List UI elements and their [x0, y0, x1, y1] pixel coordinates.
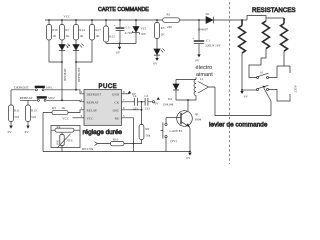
svg-text:CANCEL: CANCEL — [170, 129, 183, 133]
zener diode VZ1 — [133, 20, 147, 44]
thermistor NTC — [61, 132, 63, 151]
svg-text:SW2: SW2 — [48, 96, 55, 100]
svg-text:Q1: Q1 — [195, 112, 199, 116]
svg-text:D1: D1 — [206, 12, 210, 16]
capacitor C1 (electrolytic) — [192, 20, 221, 63]
svg-text:R1: R1 — [167, 12, 171, 16]
svg-text:3904: 3904 — [195, 117, 202, 121]
resistor R4 — [51, 129, 80, 131]
svg-text:C2: C2 — [144, 94, 148, 98]
svg-text:R17: R17 — [95, 28, 101, 32]
svg-text:DEFROST: DEFROST — [77, 67, 81, 82]
resistor R12 — [104, 20, 116, 44]
svg-text:1N4148: 1N4148 — [163, 103, 174, 107]
IC U1 PUCE — [84, 84, 122, 125]
svg-text:RE: RE — [115, 116, 119, 120]
wire pin6 OSC — [122, 102, 142, 125]
svg-text:R10: R10 — [113, 138, 119, 142]
switch S1 — [257, 70, 269, 78]
heater resistor RC — [269, 18, 290, 78]
svg-text:CARTE COMMANDE: CARTE COMMANDE — [98, 7, 149, 13]
svg-text:levier de commande: levier de commande — [209, 122, 268, 129]
diode D1 — [198, 12, 214, 32]
sensor box NTC — [51, 125, 80, 152]
svg-text:REPEAT: REPEAT — [87, 100, 99, 104]
svg-text:R13: R13 — [31, 109, 37, 113]
svg-text:+: + — [114, 24, 116, 28]
LED D2 (REHEAT indicator) — [59, 40, 70, 100]
svg-text:OSC: OSC — [113, 108, 120, 112]
svg-text:R9: R9 — [145, 127, 149, 131]
pushbutton SW1 — [35, 86, 53, 91]
svg-text:223: 223 — [145, 107, 150, 111]
svg-text:0V: 0V — [195, 59, 200, 63]
svg-text:réglage durée: réglage durée — [83, 129, 123, 136]
svg-text:RELAY: RELAY — [87, 108, 98, 112]
resistor R1 — [163, 12, 180, 28]
svg-text:2K: 2K — [62, 106, 67, 110]
svg-text:56k: 56k — [145, 134, 150, 138]
svg-text:C5: C5 — [126, 26, 130, 30]
6V flag heater — [240, 89, 248, 98]
capacitor C4 — [122, 94, 146, 111]
net label VCC (pin4) — [62, 116, 84, 120]
svg-text:VZ1: VZ1 — [140, 26, 146, 30]
inductor L1 coil — [188, 77, 204, 100]
svg-text:10V: 10V — [140, 32, 146, 36]
transistor Q1 — [166, 100, 202, 152]
svg-text:0V: 0V — [155, 102, 160, 106]
svg-text:240: 240 — [167, 25, 172, 29]
heater resistor RA — [239, 20, 246, 90]
LED D3 (DEFROST indicator) — [73, 40, 84, 90]
svg-text:L1: L1 — [200, 77, 204, 81]
wire VCC rail — [45, 16, 284, 22]
svg-text:230V: 230V — [294, 85, 298, 93]
svg-text:R8 270k: R8 270k — [82, 147, 94, 151]
svg-text:1K: 1K — [79, 34, 84, 38]
svg-text:D4: D4 — [168, 97, 172, 101]
0V flag near D4 — [155, 97, 160, 106]
svg-text:6V: 6V — [25, 130, 30, 134]
svg-text:VCC: VCC — [62, 116, 70, 120]
svg-text:10K: 10K — [56, 139, 60, 145]
svg-text:R3: R3 — [52, 106, 56, 110]
resistor R13 — [25, 105, 37, 134]
pushbutton CANCEL — [161, 118, 183, 152]
svg-text:510: 510 — [31, 115, 36, 119]
svg-text:NTC: NTC — [67, 139, 74, 143]
resistor R11 — [8, 105, 20, 134]
resistor R10 — [95, 138, 134, 146]
resistor R16 — [47, 20, 62, 62]
svg-text:6V: 6V — [244, 94, 249, 98]
svg-text:CK: CK — [114, 100, 119, 104]
svg-text:PUCE: PUCE — [99, 84, 118, 90]
node dot REHEAT column — [61, 99, 63, 101]
wire bottom bus — [43, 113, 190, 152]
svg-text:VCC: VCC — [64, 15, 72, 19]
node dots on VCC rail — [48, 19, 243, 21]
svg-text:0V: 0V — [186, 156, 191, 160]
0V flag emitter — [186, 151, 191, 160]
svg-text:R3: R3 — [161, 26, 165, 30]
svg-text:RESISTANCES: RESISTANCES — [252, 7, 296, 14]
svg-text:GND: GND — [112, 92, 120, 96]
svg-text:510: 510 — [14, 115, 19, 119]
svg-text:SW1: SW1 — [46, 86, 53, 90]
pushbutton SW2 — [37, 96, 55, 101]
svg-text:REHEAT: REHEAT — [20, 96, 33, 100]
svg-text:R11: R11 — [14, 109, 20, 113]
node dot collector — [187, 99, 189, 101]
node dot DEFROST column — [75, 89, 77, 91]
svg-text:électro: électro — [196, 65, 213, 71]
node dot C4/C2 — [141, 101, 143, 103]
svg-text:0V: 0V — [153, 62, 158, 66]
pin 8 6V flag — [122, 91, 137, 96]
svg-text:1K: 1K — [161, 33, 166, 37]
svg-text:0V: 0V — [116, 50, 121, 54]
svg-text:+: + — [192, 37, 194, 41]
svg-text:C1: C1 — [206, 38, 210, 42]
resistor R7 — [60, 20, 70, 40]
svg-text:4.7UF: 4.7UF — [125, 31, 134, 35]
resistor R17 — [76, 20, 101, 62]
wire pin5 RE — [122, 118, 134, 152]
wire REHEAT row — [20, 100, 84, 105]
node junction dots LED columns — [61, 61, 77, 63]
capacitor C5 (electrolytic) — [114, 20, 134, 44]
wire DEFROST row — [11, 90, 84, 105]
svg-text:aimant: aimant — [196, 72, 213, 78]
svg-text:C4: C4 — [133, 94, 137, 98]
svg-text:R14: R14 — [79, 28, 85, 32]
wire 230V bracket — [269, 90, 290, 102]
svg-text:0V: 0V — [8, 130, 13, 134]
svg-text:DEFROST: DEFROST — [14, 86, 29, 90]
label electro aimant — [196, 65, 214, 78]
plunger arrow — [198, 82, 215, 94]
dashed separator — [229, 2, 231, 164]
wire electromagnet to lever — [215, 87, 271, 116]
svg-text:S1: S1 — [260, 70, 264, 74]
resistor R3 (indicator branch) — [155, 20, 166, 49]
diode D4 — [163, 80, 196, 107]
pin numbers — [81, 90, 125, 118]
svg-text:1K: 1K — [95, 34, 100, 38]
svg-text:R4: R4 — [57, 125, 61, 129]
svg-text:R12: R12 — [109, 35, 115, 39]
svg-text:220UF 16V: 220UF 16V — [205, 43, 221, 47]
lever arrow — [262, 86, 271, 101]
capacitor C2 — [144, 94, 154, 111]
LED D2b power indicator — [153, 48, 164, 65]
svg-text:R16: R16 — [52, 28, 58, 32]
svg-text:1K: 1K — [65, 34, 70, 38]
switch S2 — [242, 85, 269, 90]
resistor R3a 2K — [43, 106, 84, 115]
svg-text:R7: R7 — [65, 28, 69, 32]
svg-text:DEFROST: DEFROST — [87, 92, 102, 96]
svg-text:REHEAT: REHEAT — [63, 68, 67, 81]
node dot and 0V flag — [116, 43, 121, 55]
svg-text:VCC: VCC — [87, 116, 95, 120]
resistor R9 — [134, 125, 151, 144]
heater resistor RB — [249, 21, 270, 78]
svg-text:1K: 1K — [52, 34, 57, 38]
svg-text:(0V): (0V) — [171, 139, 177, 143]
resistor R14 — [74, 20, 86, 40]
wire ground bus under R12 C5 VZ1 — [106, 43, 136, 45]
